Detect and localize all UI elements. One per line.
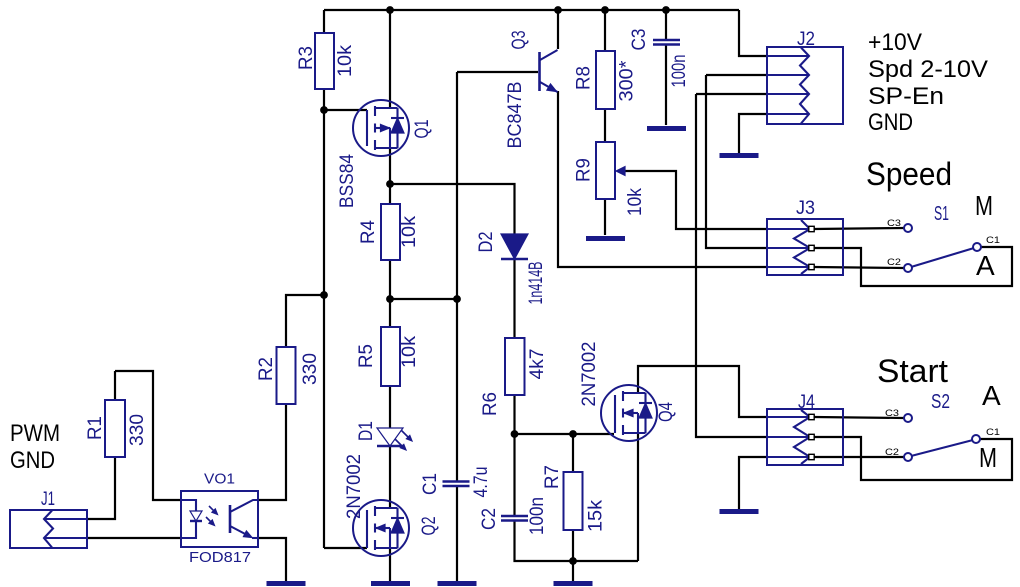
svg-text:Q1: Q1 xyxy=(412,120,433,139)
svg-text:J2: J2 xyxy=(797,29,815,50)
svg-text:Q2: Q2 xyxy=(419,517,440,536)
svg-text:J4: J4 xyxy=(798,392,815,413)
svg-text:330: 330 xyxy=(127,414,148,446)
svg-text:4k7: 4k7 xyxy=(527,349,548,380)
svg-text:R4: R4 xyxy=(358,220,379,244)
svg-text:R3: R3 xyxy=(296,46,317,70)
svg-text:C2: C2 xyxy=(885,447,899,458)
svg-text:M: M xyxy=(979,442,997,473)
svg-text:S1: S1 xyxy=(934,203,949,225)
svg-text:PWM: PWM xyxy=(10,420,60,447)
svg-text:R1: R1 xyxy=(85,416,106,440)
svg-text:A: A xyxy=(976,250,995,281)
svg-text:GND: GND xyxy=(10,447,55,474)
svg-text:10k: 10k xyxy=(625,188,646,216)
svg-text:15k: 15k xyxy=(586,499,607,532)
svg-text:R7: R7 xyxy=(542,465,563,489)
svg-text:R9: R9 xyxy=(574,158,595,182)
svg-text:Q4: Q4 xyxy=(656,402,677,422)
svg-text:1n414B: 1n414B xyxy=(526,262,547,305)
svg-text:C1: C1 xyxy=(986,427,1000,438)
svg-text:4.7u: 4.7u xyxy=(471,467,492,498)
svg-text:SP-En: SP-En xyxy=(868,83,944,110)
svg-text:100n: 100n xyxy=(527,497,548,535)
svg-text:2N7002: 2N7002 xyxy=(579,342,600,407)
svg-text:R8: R8 xyxy=(574,66,595,90)
svg-text:S2: S2 xyxy=(931,391,950,413)
svg-text:FOD817: FOD817 xyxy=(189,550,251,566)
svg-text:C3: C3 xyxy=(885,408,899,419)
svg-text:D2: D2 xyxy=(476,232,497,253)
svg-text:Q3: Q3 xyxy=(509,31,530,50)
svg-text:Speed: Speed xyxy=(866,156,952,192)
svg-text:GND: GND xyxy=(868,109,913,136)
svg-text:C3: C3 xyxy=(629,29,650,51)
svg-text:C1: C1 xyxy=(986,235,1000,246)
svg-text:BSS84: BSS84 xyxy=(337,154,358,208)
svg-text:A: A xyxy=(982,380,1001,411)
svg-text:C1: C1 xyxy=(420,473,441,495)
svg-text:330: 330 xyxy=(300,353,321,385)
svg-text:C3: C3 xyxy=(887,218,901,229)
svg-text:Start: Start xyxy=(877,353,948,389)
svg-text:BC847B: BC847B xyxy=(505,82,526,149)
svg-text:J3: J3 xyxy=(796,198,815,219)
svg-text:D1: D1 xyxy=(356,421,377,441)
svg-text:VO1: VO1 xyxy=(204,472,235,488)
svg-text:Spd 2-10V: Spd 2-10V xyxy=(868,56,988,83)
svg-text:C2: C2 xyxy=(887,257,901,268)
svg-text:R2: R2 xyxy=(256,357,277,381)
svg-text:M: M xyxy=(975,190,993,221)
svg-text:2N7002: 2N7002 xyxy=(344,454,365,519)
svg-text:R5: R5 xyxy=(356,344,377,368)
svg-text:J1: J1 xyxy=(41,489,55,510)
svg-text:100n: 100n xyxy=(669,55,690,88)
svg-text:10k: 10k xyxy=(335,44,356,77)
svg-text:300*: 300* xyxy=(617,60,638,102)
svg-text:10k: 10k xyxy=(399,215,420,248)
svg-text:C2: C2 xyxy=(479,508,500,530)
svg-text:+10V: +10V xyxy=(868,29,922,56)
svg-text:R6: R6 xyxy=(480,392,501,416)
svg-text:10k: 10k xyxy=(399,335,420,368)
